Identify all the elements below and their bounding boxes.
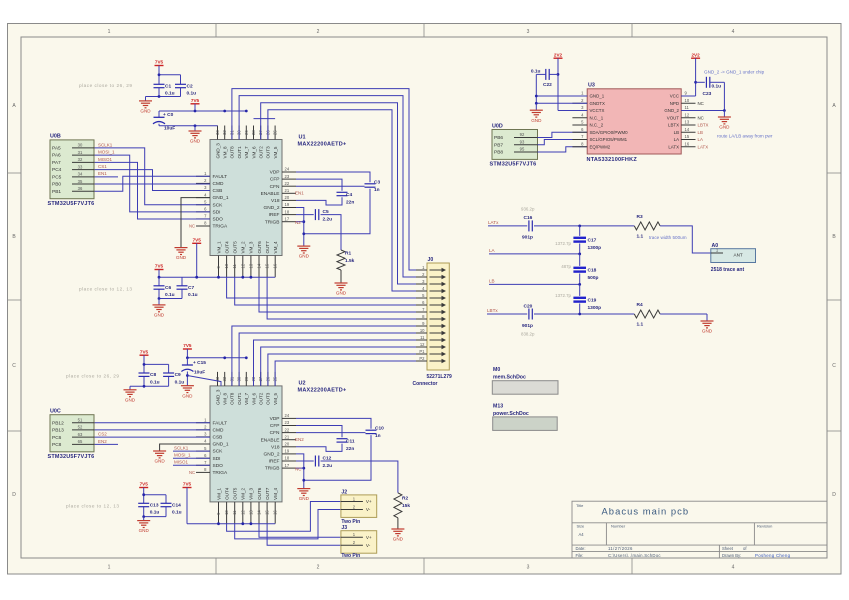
- capacitor C17: [573, 237, 586, 239]
- svg-text:EN1: EN1: [98, 171, 107, 176]
- U3 pin 5 N.C._2: [572, 124, 587, 126]
- svg-text:SDI: SDI: [213, 209, 221, 215]
- svg-text:63: 63: [78, 432, 83, 437]
- U1 pin 6 SDI: [196, 211, 210, 213]
- svg-text:VM_8: VM_8: [223, 146, 228, 158]
- U0B pin 32 PA7: [72, 161, 95, 163]
- svg-text:IREF: IREF: [269, 459, 280, 465]
- wire LB row: [489, 283, 580, 285]
- svg-text:2.2u: 2.2u: [323, 217, 333, 223]
- svg-text:21: 21: [285, 188, 290, 193]
- svg-text:CFP: CFP: [270, 177, 280, 183]
- svg-text:GND: GND: [139, 528, 150, 533]
- svg-text:16: 16: [273, 510, 278, 515]
- svg-text:14: 14: [257, 263, 262, 268]
- svg-text:Abacus main pcb: Abacus main pcb: [602, 506, 690, 517]
- wire U2 OUT2 to J0 pin12: [261, 347, 416, 386]
- svg-text:31: 31: [78, 150, 83, 155]
- svg-text:GND: GND: [154, 313, 165, 318]
- svg-text:OUT4: OUT4: [224, 487, 229, 500]
- svg-text:MISO1: MISO1: [98, 157, 113, 162]
- svg-text:SCL/GPIO5/PWM1: SCL/GPIO5/PWM1: [590, 137, 628, 142]
- wire LBTX row mid: [534, 313, 634, 315]
- U1 pin 2 CMD: [196, 182, 210, 184]
- U0B pin 34 PC5: [72, 176, 95, 178]
- svg-text:VM_4: VM_4: [273, 487, 278, 499]
- wire U2 OUT1 to J0 pin10: [239, 333, 416, 386]
- wire U2 TRIGB to gnd net: [296, 467, 304, 469]
- svg-text:A4: A4: [579, 532, 585, 537]
- svg-text:838.2p: 838.2p: [521, 331, 535, 336]
- junction dot C23 node: [694, 81, 697, 84]
- wire U1 OUT6 to J0 pin7: [259, 277, 416, 312]
- svg-text:V18: V18: [271, 444, 280, 450]
- junction dots on U1 bottom rail: [158, 276, 161, 279]
- wire U3 VCC: [681, 95, 695, 97]
- U2 pin 28 VM_6 top stub: [253, 372, 255, 386]
- U1 pin 29 VM_7 top stub: [245, 126, 247, 140]
- svg-text:LB: LB: [674, 130, 679, 135]
- U0C pin 51 PB12: [72, 422, 95, 424]
- wire PB1 to U1 FAULT: [95, 176, 210, 191]
- svg-text:C10: C10: [375, 426, 384, 432]
- svg-text:1n: 1n: [375, 433, 381, 439]
- svg-text:place close to 26, 29: place close to 26, 29: [66, 374, 120, 379]
- svg-text:VM_6: VM_6: [251, 392, 256, 404]
- junction dots U2 gnd net: [302, 467, 305, 470]
- svg-text:V+: V+: [366, 499, 372, 504]
- svg-text:N2: N2: [295, 220, 301, 225]
- svg-text:MOSI_1: MOSI_1: [98, 150, 115, 155]
- wire U1 IREF through C5: [296, 214, 314, 216]
- J0 pin 5: [416, 297, 427, 299]
- svg-text:GND_2 -> GND_1 under chip: GND_2 -> GND_1 under chip: [704, 70, 765, 75]
- svg-text:10: 10: [224, 263, 229, 268]
- svg-text:52271L279: 52271L279: [427, 374, 453, 380]
- svg-text:22: 22: [285, 181, 290, 186]
- U2 pin 22 CFN: [282, 432, 296, 434]
- svg-text:2V2: 2V2: [692, 52, 701, 57]
- svg-text:0.1u: 0.1u: [712, 83, 722, 89]
- svg-text:12: 12: [685, 112, 690, 117]
- wire U1 OUT2 to J0 pin3: [261, 103, 416, 284]
- wire C19 to LBTX: [579, 304, 581, 315]
- U1 pin 13 VM_3 bottom stub: [250, 256, 252, 278]
- svg-text:17: 17: [285, 463, 290, 468]
- svg-text:2: 2: [317, 565, 320, 571]
- svg-text:GND_3: GND_3: [215, 389, 220, 405]
- U3 pin 10 NPD: [681, 102, 695, 104]
- wire LA row: [489, 253, 580, 255]
- svg-text:18: 18: [285, 456, 290, 461]
- svg-text:SCLK1: SCLK1: [174, 446, 189, 451]
- svg-text:C2: C2: [187, 83, 193, 89]
- wire U2 OUT4 to J2 pin1: [227, 502, 341, 532]
- wire U1 OUT1 to J0 pin2: [239, 96, 416, 277]
- capacitor C10: [366, 429, 377, 431]
- svg-text:33: 33: [215, 130, 220, 135]
- svg-text:place close to 12, 13: place close to 12, 13: [79, 286, 133, 291]
- svg-text:4: 4: [732, 565, 735, 571]
- svg-text:TRIGA: TRIGA: [213, 470, 228, 476]
- svg-text:936.2p: 936.2p: [521, 207, 535, 212]
- capacitor C1: [154, 83, 165, 85]
- svg-text:1.5k: 1.5k: [345, 258, 355, 264]
- svg-text:PB1: PB1: [52, 189, 61, 195]
- ground at U1 GND_1: [175, 247, 188, 249]
- svg-text:U0C: U0C: [50, 409, 61, 415]
- wire VCCTX: [558, 110, 587, 112]
- svg-text:C1: C1: [165, 83, 171, 89]
- svg-text:CSB: CSB: [213, 188, 223, 194]
- wire U1 GND_2 down: [296, 208, 304, 247]
- U2 pin 33 GND_3 top stub: [217, 372, 219, 386]
- svg-text:19: 19: [285, 449, 290, 454]
- connector J3 Two Pin: [341, 531, 377, 554]
- U3 pin 15 LA: [681, 139, 695, 141]
- svg-text:32: 32: [78, 157, 83, 162]
- capacitor C15 (polarized): [182, 364, 193, 366]
- U0B pin 30 PA5: [72, 147, 95, 149]
- svg-text:CFN: CFN: [270, 184, 280, 190]
- capacitor C12: [314, 456, 316, 467]
- U2 pin 31 OUT8 top stub: [231, 372, 233, 386]
- MCU fragment U0B STM32U5F7VJT6: [50, 140, 94, 199]
- svg-text:OUT3: OUT3: [266, 146, 271, 159]
- capacitor C16: [528, 220, 530, 231]
- svg-text:VM_7: VM_7: [244, 146, 249, 158]
- U1 pin 23 CFP: [282, 178, 296, 180]
- J0 pin P2: [416, 360, 427, 362]
- svg-text:7V5: 7V5: [193, 238, 202, 243]
- MCU fragment U0C STM32U5F7VJT6: [50, 415, 94, 452]
- svg-text:C14: C14: [172, 503, 181, 509]
- svg-text:Title: Title: [576, 503, 584, 508]
- U3 pin 12 VOUT: [681, 117, 695, 119]
- wire MOSI_1 PA6 to U1 SDI: [95, 155, 210, 212]
- wire C8 C9 loop: [144, 363, 169, 365]
- svg-text:VDP: VDP: [270, 170, 280, 176]
- U0C pin 52 PB13: [72, 429, 95, 431]
- wire U2 GND_2 down: [296, 454, 304, 489]
- ground for C8/C9: [129, 386, 131, 390]
- svg-text:1.1: 1.1: [637, 234, 644, 240]
- svg-text:20: 20: [285, 442, 290, 447]
- svg-text:U1: U1: [299, 134, 306, 140]
- svg-text:SCK: SCK: [213, 449, 224, 455]
- svg-text:CFP: CFP: [270, 423, 280, 429]
- svg-text:10: 10: [420, 328, 425, 333]
- U3 pin 14 LB: [681, 131, 695, 133]
- svg-text:PA7: PA7: [52, 160, 61, 166]
- U1 pin 14 OUT6 bottom stub: [258, 256, 260, 278]
- svg-text:VOUT: VOUT: [667, 115, 680, 120]
- svg-text:VM_2: VM_2: [241, 241, 246, 253]
- wire C10 bottom down: [304, 435, 371, 480]
- svg-text:22n: 22n: [346, 446, 354, 452]
- svg-text:15: 15: [685, 134, 690, 139]
- U2 pin 12 VM_2 bottom stub: [242, 502, 244, 524]
- capacitor C2: [175, 83, 186, 85]
- svg-text:PB13: PB13: [52, 428, 64, 434]
- svg-text:2.2u: 2.2u: [323, 463, 333, 469]
- svg-text:901p: 901p: [522, 235, 533, 241]
- svg-text:GND: GND: [393, 537, 404, 542]
- U2 pin 10 OUT4 bottom stub: [226, 502, 228, 524]
- svg-text:ENABLE: ENABLE: [261, 191, 280, 197]
- svg-text:SDO: SDO: [213, 463, 224, 469]
- svg-text:Revision: Revision: [757, 523, 772, 528]
- svg-text:mem.SchDoc: mem.SchDoc: [493, 375, 526, 381]
- ground for C15: [181, 385, 194, 387]
- U3 pin 6 SDA/GPIO0/PWM0: [572, 131, 587, 133]
- U1 pin 21 ENABLE: [282, 192, 296, 194]
- wire U1 CFN to C3 bottom: [296, 185, 365, 187]
- svg-text:10uF: 10uF: [194, 369, 205, 375]
- J0 pin 6: [416, 304, 427, 306]
- svg-text:U2: U2: [299, 381, 306, 387]
- svg-text:10uF: 10uF: [164, 126, 175, 132]
- wire U3 GND_1: [536, 95, 587, 97]
- capacitor C5: [314, 209, 316, 220]
- U2 pin 3 CSB: [196, 436, 210, 438]
- svg-text:18: 18: [285, 209, 290, 214]
- svg-text:MAX22200AETD+: MAX22200AETD+: [298, 141, 347, 147]
- svg-text:C11: C11: [346, 438, 355, 444]
- svg-text:C20: C20: [524, 303, 533, 309]
- svg-text:NC: NC: [189, 224, 195, 229]
- svg-text:GND: GND: [299, 254, 310, 259]
- junction dot C22 node: [557, 73, 560, 76]
- U3 pin 4 N.C._1: [572, 117, 587, 119]
- svg-text:11: 11: [685, 105, 690, 110]
- svg-text:1: 1: [108, 565, 111, 571]
- junction dot LB: [578, 283, 581, 286]
- svg-text:51: 51: [78, 417, 83, 422]
- wire C6 C7 loop: [158, 277, 160, 286]
- U2 pin 2 CMD: [196, 429, 210, 431]
- U0D pin 92 PB6: [514, 137, 538, 139]
- svg-text:C22: C22: [543, 82, 552, 88]
- svg-text:D: D: [12, 492, 16, 498]
- capacitor C23: [705, 77, 707, 88]
- svg-text:Number: Number: [611, 523, 626, 528]
- J0 pin 7: [416, 311, 427, 313]
- svg-text:TRIGB: TRIGB: [265, 219, 280, 225]
- svg-text:7V5: 7V5: [140, 482, 149, 487]
- svg-text:Size: Size: [577, 523, 586, 528]
- svg-text:C: C: [12, 363, 16, 369]
- svg-text:GNDTX: GNDTX: [590, 101, 605, 106]
- svg-text:14: 14: [257, 510, 262, 515]
- op-amp driver U2 MAX22200AETD+ body: [210, 386, 282, 502]
- U3 pin 7 SCL/GPIO5/PWM1: [572, 139, 587, 141]
- svg-text:1300p: 1300p: [588, 305, 602, 311]
- svg-text:C: C: [832, 363, 836, 369]
- svg-text:11: 11: [232, 510, 237, 515]
- svg-text:GND_1: GND_1: [213, 442, 229, 448]
- wire PB7 to U3 SCL: [538, 140, 588, 145]
- wire MISO1 PA7 to U1 SDO: [95, 162, 210, 219]
- svg-text:VM_3: VM_3: [249, 487, 254, 499]
- svg-text:OUT3: OUT3: [266, 392, 271, 405]
- junction dots C8: [143, 363, 146, 366]
- ground at U2 GND_1: [153, 450, 166, 452]
- U1 pin 27 OUT2 top stub: [260, 126, 262, 140]
- U2 pin 16 VM_4 bottom stub: [274, 502, 276, 524]
- wire C11 bottom to V18: [296, 444, 342, 452]
- svg-text:32: 32: [222, 376, 227, 381]
- svg-text:STM32U5F7VJT6: STM32U5F7VJT6: [48, 454, 95, 460]
- svg-text:21: 21: [285, 434, 290, 439]
- wire U1 OUT3 to J0 pin4: [268, 110, 416, 291]
- wire C17 to LA: [579, 244, 581, 254]
- svg-text:CMD: CMD: [213, 181, 224, 187]
- svg-text:GND: GND: [336, 291, 347, 296]
- svg-text:GND: GND: [702, 329, 713, 334]
- capacitor C8: [139, 372, 150, 374]
- svg-text:C23: C23: [703, 91, 712, 97]
- svg-text:1: 1: [108, 29, 111, 35]
- svg-text:EN1: EN1: [295, 191, 304, 196]
- svg-text:R3: R3: [637, 214, 643, 220]
- wire C23 right lead: [710, 81, 725, 83]
- svg-text:SDO: SDO: [213, 217, 224, 223]
- J3 pin 2 V-: [341, 544, 363, 546]
- svg-text:2: 2: [317, 29, 320, 35]
- resistor R4: [634, 310, 660, 318]
- svg-text:22: 22: [285, 427, 290, 432]
- wire LATX row mid: [534, 225, 634, 227]
- svg-text:FAULT: FAULT: [213, 420, 228, 426]
- svg-text:95: 95: [520, 147, 525, 152]
- wire C17 chain top: [579, 226, 581, 236]
- wire U2 OUT3 to J0 pinP1: [268, 354, 416, 386]
- svg-text:VM_6: VM_6: [251, 146, 256, 158]
- svg-text:LB: LB: [489, 279, 495, 284]
- wire EN2 stub at PC8: [95, 443, 118, 445]
- svg-text:+ C15: + C15: [193, 360, 206, 366]
- svg-text:IREF: IREF: [269, 212, 280, 218]
- U1 pin 17 TRIGB: [282, 221, 296, 223]
- U0D pin 95 PB8: [514, 151, 538, 153]
- svg-text:LBTX: LBTX: [698, 123, 709, 128]
- wire LB to C19: [579, 284, 581, 296]
- U2 pin 24 VDP: [282, 417, 296, 419]
- J0 pin 10: [416, 332, 427, 334]
- J2 pin 2 V-: [341, 509, 363, 511]
- capacitor C11: [337, 438, 348, 440]
- svg-text:EN2: EN2: [295, 437, 304, 442]
- svg-text:GND: GND: [182, 393, 193, 398]
- U0B pin 35 PB0: [72, 183, 95, 185]
- svg-text:0.1u: 0.1u: [172, 510, 182, 516]
- wire U2 OUT7 to J3 pin2: [267, 524, 341, 546]
- wire U2 top VM rail: [187, 357, 246, 359]
- svg-text:1n: 1n: [374, 187, 380, 193]
- svg-text:NTA5332100FHKZ: NTA5332100FHKZ: [587, 157, 638, 163]
- U1 pin 32 VM_8 top stub: [224, 126, 226, 140]
- svg-text:C9: C9: [175, 372, 181, 378]
- wire U1 VDP to C3: [296, 172, 370, 182]
- connector J0 52271L279: [427, 263, 449, 370]
- J0 pin 12: [416, 346, 427, 348]
- op-amp driver U1 MAX22200AETD+ body: [210, 140, 282, 256]
- svg-text:LATx: LATx: [488, 220, 499, 225]
- wire C1 top lead: [158, 75, 160, 85]
- svg-text:OUT7: OUT7: [265, 241, 270, 254]
- svg-text:0.1u: 0.1u: [187, 90, 197, 96]
- U1 pin 15 OUT7 bottom stub: [266, 256, 268, 278]
- svg-text:CS2: CS2: [98, 432, 107, 437]
- svg-text:SCLK1: SCLK1: [98, 142, 113, 147]
- U2 pin 4 GND_1: [196, 443, 210, 445]
- U2 pin 25 VM_5 top stub: [274, 372, 276, 386]
- svg-text:7V5: 7V5: [183, 343, 192, 348]
- svg-text:C8: C8: [150, 372, 156, 378]
- svg-text:VM_7: VM_7: [244, 392, 249, 404]
- svg-text:VM_5: VM_5: [273, 146, 278, 158]
- svg-text:GND: GND: [176, 255, 187, 260]
- svg-text:M0: M0: [493, 367, 500, 373]
- U1 pin 28 VM_6 top stub: [253, 126, 255, 140]
- wire 7V5 rail to U1 top pins: [159, 110, 246, 112]
- svg-text:R1: R1: [345, 251, 351, 257]
- J0 pin 3: [416, 283, 427, 285]
- svg-text:M13: M13: [493, 403, 503, 409]
- svg-text:0.1u: 0.1u: [165, 292, 175, 298]
- wire R1 to ground: [340, 270, 342, 283]
- U0B pin 36 PB1: [72, 190, 95, 192]
- svg-text:PC4: PC4: [52, 167, 62, 173]
- wire U1 OUT5 to J0 pin6: [235, 277, 416, 305]
- svg-text:20: 20: [285, 195, 290, 200]
- svg-text:11: 11: [232, 263, 237, 268]
- U1 pin 10 OUT4 bottom stub: [226, 256, 228, 278]
- svg-text:PB6: PB6: [494, 135, 503, 141]
- svg-text:VM_2: VM_2: [241, 487, 246, 499]
- U1 pin 22 CFN: [282, 185, 296, 187]
- svg-text:PB12: PB12: [52, 420, 64, 426]
- U2 pin 5 SCK: [196, 450, 210, 452]
- svg-text:GND: GND: [140, 109, 151, 114]
- wire C15 bottom: [186, 372, 188, 386]
- svg-text:11/27/2026: 11/27/2026: [608, 546, 633, 551]
- svg-text:16: 16: [273, 263, 278, 268]
- svg-text:4: 4: [732, 29, 735, 35]
- junction dot C15 bottom: [186, 374, 189, 377]
- svg-text:CS1: CS1: [98, 164, 107, 169]
- J0 pin 2: [416, 276, 427, 278]
- svg-text:GND: GND: [531, 118, 542, 123]
- U1 pin 31 OUT8 top stub: [231, 126, 233, 140]
- wire U2 SDI stub: [173, 457, 210, 459]
- svg-text:PA5: PA5: [52, 146, 61, 152]
- U2 pin 30 OUT1 top stub: [238, 372, 240, 386]
- U1 pin 11 OUT5 bottom stub: [234, 256, 236, 278]
- svg-text:23: 23: [285, 420, 290, 425]
- svg-text:OUT6: OUT6: [257, 487, 262, 500]
- transceiver U3 NTA5332100FHKZ body: [587, 89, 681, 154]
- svg-text:Connector: Connector: [413, 381, 438, 387]
- wire U1 OUT7 to J0 pin8: [267, 277, 416, 319]
- svg-text:3: 3: [527, 29, 530, 35]
- svg-text:7V5: 7V5: [155, 264, 164, 269]
- J0 pin 8: [416, 318, 427, 320]
- wire U1 OUT8 to J0 pin1: [232, 89, 416, 270]
- U1 pin 4 GND_1: [196, 197, 210, 199]
- svg-text:901p: 901p: [522, 323, 533, 329]
